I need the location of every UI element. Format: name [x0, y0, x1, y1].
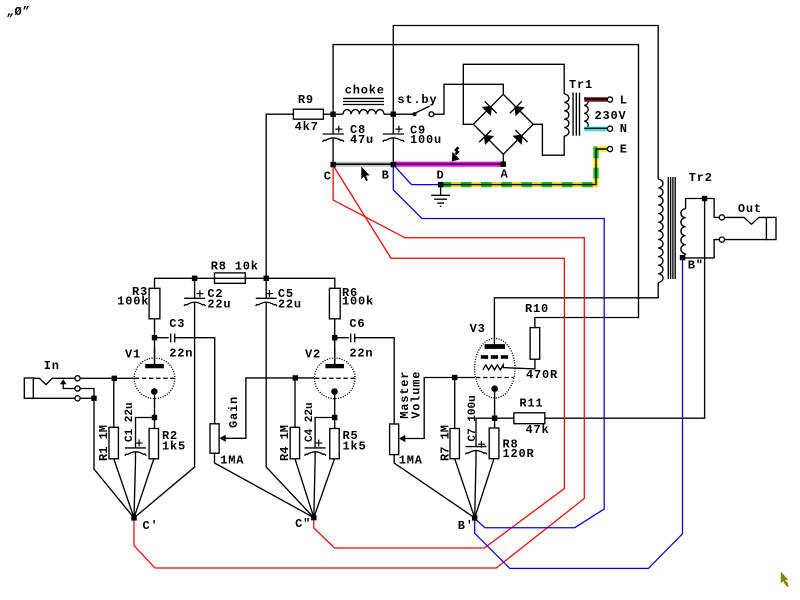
svg-text:st.by: st.by [397, 93, 437, 107]
svg-text:470R: 470R [526, 368, 558, 382]
svg-text:120R: 120R [503, 447, 535, 461]
svg-text:22u: 22u [278, 298, 302, 312]
transformer Tr2 core [668, 177, 675, 279]
svg-text:4k7: 4k7 [295, 120, 319, 134]
transformer Tr1 core [573, 93, 579, 136]
capacitor C3 [155, 334, 177, 343]
tube V3 suppressor zigzag and lead to R10 [483, 359, 535, 370]
wire B'' to Out sleeve [683, 240, 720, 258]
wire st.by to bridge top [434, 84, 503, 114]
wire C3 to Gain pot top [177, 338, 215, 424]
node B [391, 162, 396, 167]
wire blue B' to B'' [475, 260, 683, 569]
svg-text:Gain: Gain [227, 396, 241, 428]
capacitor C1 [125, 418, 155, 518]
svg-text:N: N [620, 122, 628, 136]
wire R6 bottom to V2 plate [334, 319, 336, 365]
node V2 cathode [332, 415, 337, 420]
svg-text:C: C [324, 169, 332, 183]
tube V1 cathode [151, 388, 158, 428]
wire R8 bottom to B' [475, 459, 494, 518]
svg-text:Tr2: Tr2 [689, 171, 713, 185]
svg-text:choke: choke [345, 84, 385, 98]
node In sleeve [91, 396, 96, 401]
wire In sleeve [33, 397, 75, 399]
wire R9 left lead and drop to rail [266, 114, 293, 278]
svg-text:Volume: Volume [410, 371, 424, 419]
wire C6 to Master Volume top [357, 338, 395, 424]
svg-text:E: E [620, 142, 628, 156]
svg-text:1MA: 1MA [399, 453, 423, 467]
transformer Tr1 primary winding 230V [584, 98, 588, 130]
wire R9 right lead [323, 113, 333, 115]
wire Out tip with plug notch [725, 217, 767, 224]
svg-text:R7 1M: R7 1M [438, 425, 452, 461]
svg-text:V1: V1 [125, 347, 141, 361]
bridge rectifier diamond [473, 94, 533, 154]
switch st.by pivot dot [412, 112, 416, 116]
wire In tip to V1 grid [80, 377, 134, 379]
svg-text:100k: 100k [342, 295, 374, 309]
wiper arrow Gain [219, 435, 225, 442]
svg-text:C7 100u: C7 100u [467, 395, 479, 441]
svg-text:A: A [501, 167, 509, 181]
wire R11 left lead [495, 417, 514, 419]
wire V3 cathode down to R8 [494, 392, 496, 428]
resistor R8 10k [215, 273, 246, 283]
tube V1 grid [135, 377, 175, 379]
tube V3 envelope [475, 338, 515, 398]
input jack In body [24, 378, 33, 398]
transformer Tr2 primary winding [658, 179, 663, 282]
wire blue B to D [394, 166, 438, 185]
diode D3 lower-left [479, 130, 492, 144]
ground symbol at D [431, 185, 450, 207]
switch st.by lever [416, 106, 430, 113]
svg-text:B″: B″ [688, 258, 704, 272]
node D [438, 182, 443, 187]
node V1 grid [112, 376, 117, 381]
wire red C to C' (via top rail y=238) [134, 166, 584, 568]
wire V3 grid node down to R7 [454, 378, 456, 429]
capacitor C8 [323, 114, 344, 164]
node C [330, 162, 335, 167]
wire Master Volume bottom to B' [394, 455, 475, 518]
wire B+ rail to preamp plates [155, 278, 335, 288]
junction nodes (solder squares) [91, 112, 707, 521]
potentiometer Gain 1MA [210, 424, 219, 453]
capacitor C6 [335, 334, 357, 343]
wire In tip with plug notch [33, 378, 75, 384]
node V1 cathode [152, 415, 157, 420]
node V1 plate / C3 [152, 335, 157, 340]
jack switch contact arrow [60, 379, 75, 388]
tube V1 envelope [134, 358, 175, 399]
capacitor C7 [466, 418, 495, 518]
resistor R10 470R [530, 328, 540, 360]
svg-text:47u: 47u [350, 133, 374, 147]
wire Gain wiper to V2 grid [225, 378, 315, 438]
node B' [472, 515, 477, 520]
svg-text:D: D [437, 168, 445, 182]
svg-text:C″: C″ [295, 517, 311, 531]
terminal circle In ring [75, 386, 80, 391]
svg-text:C3: C3 [169, 317, 185, 331]
node C' [131, 515, 136, 520]
wire R7 bottom to B' [455, 459, 475, 518]
wire B riser to Tr2 primary top [393, 26, 658, 180]
diode D2 upper-right [510, 101, 523, 115]
wire Tr2 secondary bottom into B'' [683, 254, 686, 257]
wire C-B selected (gray highlighted) [333, 162, 393, 167]
svg-text:230V: 230V [595, 109, 627, 123]
choke L1 [336, 98, 394, 114]
node B'' [680, 255, 685, 260]
terminal circle In tip [75, 376, 80, 381]
node V3 grid [452, 375, 457, 380]
tube V3 cathode [491, 385, 498, 392]
svg-text:V3: V3 [470, 322, 486, 336]
resistor R4 1M [290, 378, 314, 518]
svg-text:R8 10k: R8 10k [211, 259, 259, 273]
wire Tr1 secondary bottom to bridge right corner [533, 124, 564, 155]
resistor R5 1k5 [314, 429, 339, 518]
wire bridge bottom to node A [502, 154, 504, 163]
wire Out sleeve to plug body [725, 239, 767, 241]
terminal circle N [607, 126, 612, 131]
transformer Tr1 secondary winding [564, 94, 569, 136]
wire D-E earth yellow/green [441, 149, 607, 185]
resistor R11 [514, 413, 545, 424]
tube V2 envelope [314, 358, 355, 399]
svg-text:R10: R10 [525, 302, 549, 316]
svg-text:„Ø”: „Ø” [7, 5, 31, 19]
wire blue B to B' [393, 167, 604, 528]
svg-text:22n: 22n [169, 347, 193, 361]
node V2 plate / C6 [332, 335, 337, 340]
wire Tr1 L live brown [584, 97, 607, 102]
svg-text:Out: Out [738, 202, 762, 216]
capacitor C4 [305, 418, 335, 518]
wire B node to st.by switch [393, 113, 413, 115]
svg-text:In: In [44, 359, 60, 373]
wire Tr1 N neutral cyan [584, 126, 607, 131]
resistor R3 100k [149, 288, 160, 319]
svg-text:1k5: 1k5 [343, 439, 367, 453]
svg-text:Tr1: Tr1 [569, 78, 593, 92]
svg-text:R11: R11 [519, 396, 543, 410]
terminal circle Out tip [719, 215, 724, 220]
wire red C to C'' (via rail y=258) [314, 167, 565, 549]
svg-text:R9: R9 [298, 93, 314, 107]
capacitor C9 [383, 114, 404, 164]
svg-text:V2: V2 [305, 347, 321, 361]
resistor R6 100k [329, 288, 340, 319]
wire In ring to sleeve node [80, 389, 94, 399]
wire bridge left corner to Tr1 secondary top [463, 64, 564, 124]
svg-text:47k: 47k [526, 423, 550, 437]
svg-text:100k: 100k [117, 295, 149, 309]
svg-text:100u: 100u [410, 133, 442, 147]
svg-text:C4 22u: C4 22u [304, 402, 316, 442]
diode D1 upper-left [483, 101, 497, 114]
wire feedback Tr2 tap down to R11 [545, 199, 705, 419]
tube V3 screen grid [481, 355, 508, 359]
tube V2 grid [315, 377, 355, 379]
potentiometer Master Volume 1MA [390, 424, 399, 455]
cursor arrow olive (pointing up-left) [781, 572, 789, 587]
terminal circle E [607, 146, 612, 151]
tube V3 control grid [476, 377, 514, 379]
node C'' [311, 515, 316, 520]
wire In sleeve node to C' [80, 398, 134, 518]
node C top [330, 112, 335, 117]
transformer Tr2 secondary winding [681, 209, 686, 254]
node B top [391, 112, 396, 117]
node A [501, 162, 506, 167]
capacitor C5 [256, 278, 314, 517]
wire B-A magenta [393, 161, 503, 166]
node V2 grid [293, 375, 298, 380]
capacitor C2 [134, 278, 205, 518]
wire master volume wiper to V3 grid [405, 378, 476, 439]
svg-text:1MA: 1MA [220, 453, 244, 467]
cursor arrow black (pointing up-left) [361, 167, 369, 181]
svg-text:R1 1M: R1 1M [97, 425, 111, 461]
wire Tr2 primary bottom to V3 plate [494, 282, 658, 344]
node C2 top [192, 276, 197, 281]
svg-text:C′: C′ [143, 519, 159, 533]
wire Gain bottom to C'' [215, 453, 314, 517]
switch st.by contact circle [429, 112, 434, 117]
wire R3 bottom to V1 plate [154, 319, 156, 365]
tube V3 plate [485, 345, 504, 348]
terminal circle Out sleeve [719, 237, 724, 242]
svg-text:B′: B′ [458, 519, 474, 533]
diode D4 lower-right [514, 130, 528, 143]
resistor R7 1M [450, 429, 459, 459]
node Tr2 secondary tap [702, 196, 707, 201]
svg-text:C6: C6 [349, 317, 365, 331]
terminal circle In sleeve [75, 396, 80, 401]
Out plug body [766, 217, 776, 239]
wiper arrow Master Volume [399, 435, 405, 442]
svg-text:L: L [620, 93, 628, 107]
resistor R2 1k5 [134, 429, 159, 518]
tube V2 cathode [331, 388, 338, 428]
terminal circle L [607, 97, 612, 102]
node V3 cathode [492, 416, 497, 421]
resistor R9 [293, 109, 323, 119]
tube V2 plate [326, 348, 343, 368]
svg-text:C1 22u: C1 22u [124, 402, 136, 442]
svg-text:22n: 22n [349, 347, 373, 361]
svg-text:1k5: 1k5 [162, 439, 186, 453]
node C5 top [264, 276, 269, 281]
svg-text:B: B [382, 168, 390, 182]
svg-text:22u: 22u [207, 298, 231, 312]
svg-text:R4 1M: R4 1M [278, 425, 292, 461]
wire C riser to screen rail: C node up, right, down, to R10 [333, 45, 638, 328]
resistor R1 1M [109, 378, 134, 518]
wire Tr2 secondary top to Out tip [686, 199, 720, 218]
cursor arrow black (pointing down-left with jagged tail) [452, 147, 460, 161]
tube V1 plate [146, 348, 163, 368]
resistor R8 120R [489, 428, 499, 459]
